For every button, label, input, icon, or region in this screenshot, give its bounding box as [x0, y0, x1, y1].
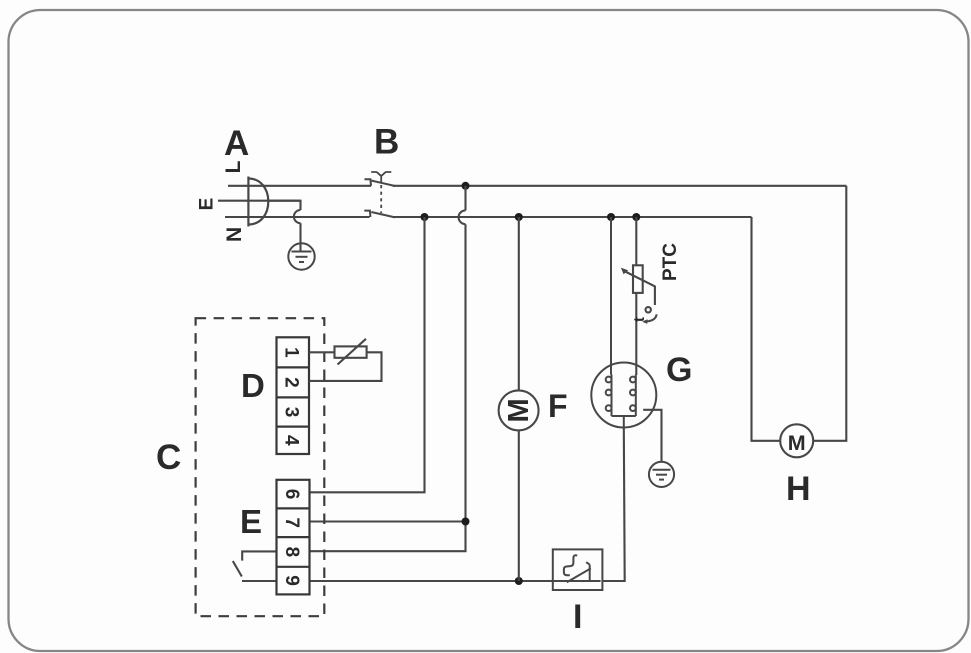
wire L to motor H: [813, 186, 846, 441]
wire G tap to ground: [643, 410, 661, 462]
switch B linkage symbol: [371, 172, 391, 213]
terminal block E: [277, 480, 310, 595]
svg-text:F: F: [548, 388, 568, 424]
svg-text:D: D: [241, 367, 265, 404]
svg-text:8: 8: [281, 547, 302, 558]
wire terminal8 left + door switch: [233, 551, 277, 581]
svg-text:N: N: [221, 227, 244, 242]
wire E (earth) from plug to ground: [218, 201, 301, 252]
wire vertical 465 with hop over N: [459, 186, 466, 522]
svg-text:M: M: [788, 431, 806, 455]
thermistor (defrost sensor) on terminals 1-2: [309, 339, 382, 381]
svg-text:A: A: [224, 124, 249, 163]
svg-text:t: t: [631, 317, 648, 322]
svg-text:3: 3: [281, 407, 302, 418]
svg-text:G: G: [666, 351, 692, 389]
compressor G: [591, 217, 656, 428]
motor H: [780, 424, 813, 457]
junction dot 519 bottom: [515, 577, 523, 585]
junction dot 611 on N: [607, 213, 615, 221]
switch B (double pole): [364, 179, 395, 217]
svg-text:E: E: [197, 198, 218, 211]
junction dot 424 on N: [421, 213, 429, 221]
wire G common down to switch I: [601, 428, 625, 582]
wire vertical 424 to terminal6: [310, 217, 425, 492]
ground symbol below plug: [288, 243, 314, 269]
wire terminal8 right: [310, 522, 466, 552]
svg-text:PTC: PTC: [660, 243, 681, 281]
wire terminal9 to switch I: [310, 580, 554, 582]
svg-text:2: 2: [281, 377, 302, 388]
svg-text:E: E: [240, 503, 262, 540]
wire N to motor H: [752, 217, 781, 441]
svg-text:C: C: [156, 438, 181, 477]
terminal block D: [277, 337, 310, 454]
svg-text:6: 6: [281, 489, 302, 500]
svg-text:B: B: [374, 123, 399, 162]
svg-text:I: I: [573, 598, 582, 636]
dashed box C: [196, 318, 325, 616]
svg-text:M: M: [503, 398, 535, 422]
svg-text:9: 9: [281, 575, 302, 586]
svg-text:4: 4: [281, 435, 302, 446]
wire L line top: [228, 185, 846, 187]
svg-text:7: 7: [281, 517, 302, 528]
svg-text:1: 1: [281, 347, 302, 358]
PTC thermistor branch: [621, 217, 657, 375]
junction dot 519 on N: [515, 213, 523, 221]
junction dot 636 on N: [632, 213, 640, 221]
wire N line: [225, 216, 752, 218]
ground symbol right of G: [649, 462, 674, 487]
junction dot top at 465: [462, 182, 470, 190]
motor F: [499, 390, 539, 430]
junction dot 465 at t7: [462, 518, 470, 526]
switch I (thermal cutout): [553, 549, 603, 590]
wire F branch vertical: [518, 217, 520, 581]
svg-text:H: H: [786, 470, 811, 508]
svg-text:L: L: [222, 160, 245, 173]
wire terminal7: [310, 520, 466, 522]
plug A body: [248, 177, 268, 227]
